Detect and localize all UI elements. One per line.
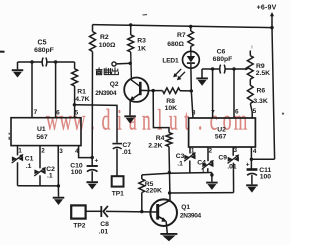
svg-text:R7: R7 — [177, 32, 186, 39]
svg-text:10K: 10K — [165, 105, 178, 112]
junction dot pin5-TP1wire — [73, 103, 76, 106]
junction dot C4 ground node — [210, 173, 213, 176]
ground C11 — [246, 184, 258, 186]
svg-text:TP2: TP2 — [73, 223, 85, 230]
diode LED1 light arrows — [179, 72, 185, 78]
wire LED to pin8 U2 — [191, 91, 193, 118]
capacitor C3 — [184, 155, 189, 160]
resistor R2 — [90, 32, 96, 52]
svg-text:d: d — [102, 104, 111, 137]
wire node B horizontal — [170, 192, 234, 194]
transistor Q1 base bar — [156, 204, 159, 220]
transistor Q2 base bar — [139, 82, 142, 95]
svg-text:R8: R8 — [166, 98, 175, 105]
transistor Q1 emitter — [158, 216, 163, 219]
diode LED1 symbol — [190, 51, 192, 56]
svg-text:U2: U2 — [217, 126, 226, 133]
svg-text:l: l — [157, 104, 162, 137]
svg-text:100Ω: 100Ω — [99, 42, 116, 49]
svg-text:Q2: Q2 — [110, 81, 119, 88]
capacitor C7 — [112, 143, 122, 145]
svg-text:R3: R3 — [137, 38, 146, 45]
wire C9 bottom — [232, 163, 234, 193]
svg-text:4: 4 — [253, 148, 257, 155]
resistor R5 — [139, 179, 145, 193]
svg-text:C6: C6 — [217, 49, 226, 56]
junction dot output node — [129, 62, 132, 65]
svg-text:.01: .01 — [99, 229, 109, 236]
svg-text:.01: .01 — [227, 164, 237, 171]
svg-text:7: 7 — [211, 109, 215, 116]
wire R4 to Q1 collector — [169, 147, 170, 201]
svg-text:2.2K: 2.2K — [148, 143, 162, 150]
capacitor C4 — [202, 162, 207, 167]
wire R2 down to C10 node — [91, 52, 93, 158]
ic U1 left edge ticks — [8, 133, 10, 135]
svg-text:.1: .1 — [177, 160, 183, 167]
wire Q2 collector down to R4 — [153, 91, 169, 133]
wire U1 pin1 lower — [17, 162, 19, 185]
wire U1 pin2 lower — [39, 175, 41, 186]
transistor Q2 body — [124, 78, 148, 102]
test point TP2 box — [71, 205, 85, 218]
ground Q2 emitter — [124, 115, 136, 117]
resistor R8 — [163, 88, 181, 94]
wire ground rail C1 C2 — [18, 185, 59, 187]
stub R9 faint — [251, 46, 253, 49]
ic U1 box — [11, 118, 81, 146]
junction dot rail-R7 — [189, 25, 192, 28]
svg-text:C1: C1 — [25, 155, 34, 162]
ground U1 pin3 — [57, 186, 59, 197]
svg-text:.1: .1 — [47, 172, 53, 179]
svg-text:100: 100 — [260, 174, 272, 181]
resistor R6 — [249, 79, 251, 85]
junction dot ground rail — [57, 184, 60, 187]
capacitor C10 polarized — [91, 158, 93, 166]
wire U1 pin1 upper — [17, 146, 19, 156]
svg-text:C3: C3 — [176, 153, 185, 160]
capacitor C8 — [100, 206, 102, 217]
wire C6 right — [225, 68, 246, 70]
transistor Q1 collector inside — [158, 200, 170, 206]
svg-text:567: 567 — [36, 134, 48, 141]
svg-text:1K: 1K — [137, 46, 146, 53]
svg-text:5: 5 — [253, 108, 257, 115]
junction dot C5-pin6 — [54, 60, 57, 63]
junction dot rail-R3 — [129, 23, 132, 26]
stray dot right — [282, 113, 284, 115]
ground C6 — [201, 69, 203, 78]
svg-text:3: 3 — [234, 147, 238, 154]
wire Q2 collector — [150, 90, 162, 92]
wire C5 left segment — [18, 61, 43, 63]
wiper arrow into R9 — [245, 67, 249, 70]
wire supply to pin4 U2 — [251, 158, 274, 160]
capacitor C6 — [219, 65, 222, 74]
wire node A horizontal — [142, 173, 170, 175]
test point TP1 box — [112, 176, 124, 186]
capacitor C9 — [228, 157, 233, 162]
wire R8 to LED line — [180, 90, 191, 92]
svg-text:100: 100 — [71, 169, 83, 176]
resistor R9 potentiometer — [249, 51, 251, 56]
svg-text:C4: C4 — [197, 160, 206, 167]
wire U2 pin3 — [232, 147, 234, 156]
svg-text:+: + — [95, 158, 99, 165]
svg-text:LED1: LED1 — [162, 57, 179, 64]
junction dot pin4 supply — [250, 158, 253, 161]
svg-text:C5: C5 — [38, 40, 47, 47]
svg-text:.: . — [198, 104, 202, 137]
wire top supply rail — [93, 25, 273, 28]
wire U1 pin7 — [31, 62, 33, 118]
wire C6 left — [202, 68, 220, 70]
svg-text:+: + — [246, 162, 250, 169]
svg-text:680pF: 680pF — [34, 47, 54, 54]
ground C10 — [86, 181, 98, 183]
junction dot R5 base — [140, 210, 143, 213]
stray dash top — [143, 14, 148, 16]
svg-text:680pF: 680pF — [213, 56, 233, 63]
capacitor C2 — [34, 169, 39, 174]
junction dot C10 node — [91, 156, 94, 159]
capacitor C5 — [41, 58, 44, 67]
label output Chinese — [96, 67, 119, 74]
svg-text:R1: R1 — [77, 89, 86, 96]
svg-text:.1: .1 — [199, 168, 205, 175]
capacitor C11 polarized — [247, 168, 258, 171]
wire U1 pin2 upper — [39, 146, 41, 169]
wire C3 bottom — [189, 161, 191, 173]
wire U2 pin7 — [212, 69, 214, 118]
svg-text:U1: U1 — [37, 126, 46, 133]
svg-text:R6: R6 — [257, 88, 266, 95]
wire C5 ground stub — [17, 62, 19, 69]
wire U2 pin4 — [250, 147, 252, 169]
wire output terminal — [116, 62, 130, 65]
svg-text:i: i — [117, 104, 122, 137]
ic U2 box — [189, 118, 256, 147]
junction dot node B — [168, 191, 171, 194]
junction dot LED-R8-pin8 — [190, 89, 193, 92]
svg-text:5: 5 — [75, 109, 79, 116]
svg-text:2.5K: 2.5K — [256, 70, 270, 77]
svg-text:4.7K: 4.7K — [75, 96, 89, 103]
wire U2 pin1 — [189, 147, 191, 154]
wire C8 to Q1 base — [106, 210, 158, 213]
resistor R7 — [190, 27, 192, 32]
svg-text:Q1: Q1 — [181, 204, 190, 211]
transistor Q2 emitter — [133, 94, 140, 99]
capacitor C1 — [12, 156, 17, 161]
svg-text:w: w — [59, 104, 72, 137]
wire U1 pin3 — [57, 146, 59, 186]
wire U2 pin2 — [207, 147, 209, 161]
wire R5 top — [141, 175, 143, 179]
svg-text:2N3904: 2N3904 — [95, 90, 117, 97]
wire TP2 to C8 — [86, 210, 101, 212]
wire right supply drop — [272, 28, 275, 160]
diode LED1 body — [183, 51, 200, 68]
resistor R3 — [130, 25, 132, 35]
resistor R4 — [166, 133, 172, 147]
svg-text:6: 6 — [235, 108, 239, 115]
svg-text:2: 2 — [41, 147, 45, 154]
svg-text:3.3K: 3.3K — [253, 98, 267, 105]
wire C7 to TP1 — [116, 149, 118, 177]
svg-text:6: 6 — [56, 110, 60, 117]
node output terminal circle — [112, 62, 116, 66]
wire U1 pin4 L — [79, 146, 93, 158]
svg-text:TP1: TP1 — [112, 191, 124, 198]
ground C5 — [12, 69, 24, 71]
svg-text:+6-9V: +6-9V — [257, 4, 277, 11]
wire C5 right segment — [47, 61, 75, 63]
svg-text:1: 1 — [18, 147, 22, 154]
svg-text:220K: 220K — [146, 188, 162, 195]
svg-text:2N3904: 2N3904 — [180, 213, 202, 220]
wire U2 pin6 — [233, 69, 235, 118]
svg-text:R4: R4 — [156, 135, 165, 142]
junction dot C5-pin7 — [30, 60, 33, 63]
junction dot C6-pin7 — [211, 67, 214, 70]
transistor Q1 body — [150, 199, 177, 226]
power supply arrow terminal — [270, 12, 274, 16]
wire stub image left edge — [0, 51, 5, 53]
ground Q1 emitter — [160, 233, 177, 235]
wire U1 pin6 — [55, 62, 57, 118]
wire pin5 to C7 TP1 — [74, 105, 117, 143]
wire R6 to pin5 U2 — [250, 104, 252, 119]
junction dot rail-right — [270, 26, 273, 29]
svg-text:R9: R9 — [256, 63, 265, 70]
junction dot Q2 collector branch — [152, 89, 155, 92]
watermark www.dianlut.com — [46, 104, 247, 137]
svg-text:R2: R2 — [100, 34, 109, 41]
svg-text:567: 567 — [215, 134, 227, 141]
wire R3 to Q2 base — [131, 52, 140, 86]
junction dot C6-pin6 — [232, 67, 235, 70]
resistor R1 — [74, 62, 76, 69]
svg-text:8: 8 — [192, 109, 196, 116]
transistor Q2 collector inside — [140, 89, 150, 91]
svg-text:680Ω: 680Ω — [167, 41, 184, 48]
svg-text:2: 2 — [209, 147, 213, 154]
svg-text:7: 7 — [34, 109, 38, 116]
svg-text:.01: .01 — [122, 149, 132, 156]
svg-text:3: 3 — [59, 148, 63, 155]
svg-text:n: n — [142, 104, 151, 137]
svg-text:.1: .1 — [26, 163, 32, 170]
wire R5 bottom — [141, 193, 143, 212]
ground C4 — [211, 173, 213, 182]
svg-text:C9: C9 — [218, 155, 227, 162]
junction dot node A — [168, 171, 171, 174]
svg-text:C8: C8 — [100, 221, 109, 228]
wire C4 bottom — [207, 168, 209, 172]
